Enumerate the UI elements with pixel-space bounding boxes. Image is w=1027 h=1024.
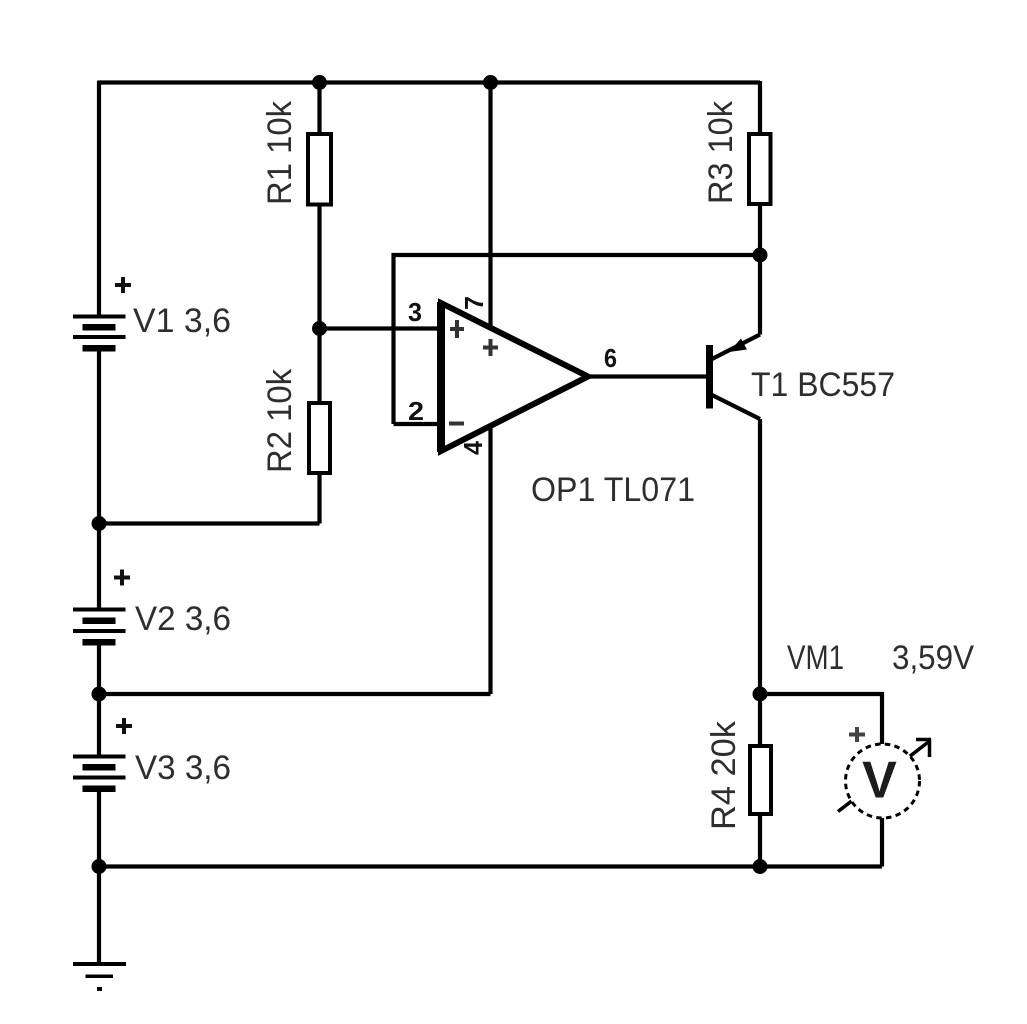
svg-text:V: V bbox=[862, 752, 897, 810]
svg-text:R4 20k: R4 20k bbox=[705, 720, 743, 830]
svg-text:OP1 TL071: OP1 TL071 bbox=[531, 471, 695, 509]
svg-text:VM1: VM1 bbox=[787, 639, 844, 677]
svg-text:T1 BC557: T1 BC557 bbox=[751, 366, 895, 404]
svg-text:3: 3 bbox=[408, 297, 422, 327]
svg-text:6: 6 bbox=[604, 343, 617, 373]
svg-text:3,59V: 3,59V bbox=[892, 639, 974, 677]
svg-text:R2 10k: R2 10k bbox=[261, 368, 299, 473]
svg-text:R3 10k: R3 10k bbox=[702, 100, 740, 204]
svg-text:R1 10k: R1 10k bbox=[261, 100, 299, 205]
svg-text:4: 4 bbox=[458, 440, 488, 455]
svg-text:2: 2 bbox=[408, 396, 424, 426]
svg-text:7: 7 bbox=[459, 296, 489, 310]
svg-text:V3 3,6: V3 3,6 bbox=[135, 749, 231, 787]
svg-text:V2 3,6: V2 3,6 bbox=[135, 600, 231, 638]
svg-text:V1 3,6: V1 3,6 bbox=[133, 302, 231, 340]
